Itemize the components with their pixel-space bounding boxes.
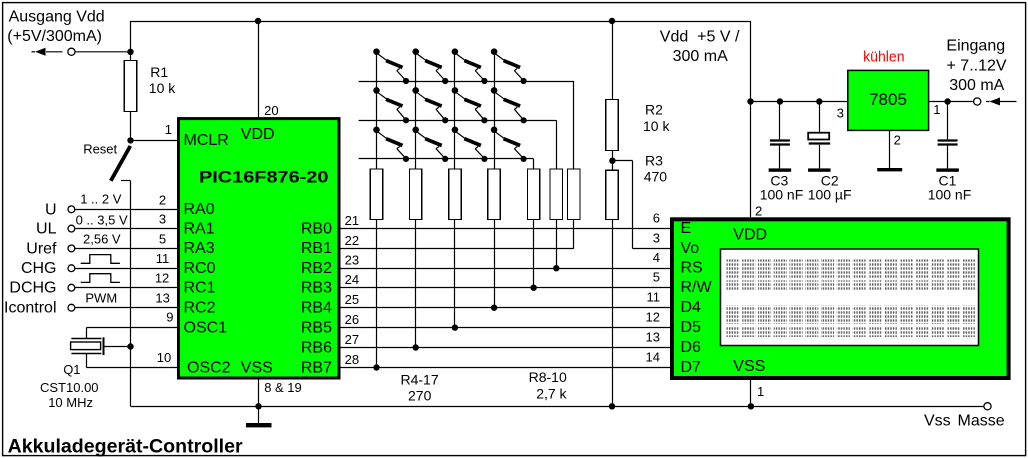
svg-text:24: 24 [345, 272, 359, 287]
svg-text:20: 20 [264, 103, 278, 118]
svg-text:3: 3 [837, 105, 844, 120]
svg-text:CHG: CHG [21, 260, 57, 277]
svg-text:OSC1: OSC1 [184, 319, 228, 336]
svg-text:12: 12 [646, 310, 660, 325]
svg-text:Reset: Reset [83, 141, 117, 156]
svg-text:3: 3 [159, 212, 166, 227]
svg-text:Icontrol: Icontrol [4, 300, 56, 317]
svg-text:RC2: RC2 [184, 300, 216, 317]
svg-text:100 nF: 100 nF [928, 187, 972, 203]
svg-text:4: 4 [653, 250, 660, 265]
svg-text:RS: RS [681, 260, 703, 277]
svg-text:RA0: RA0 [184, 201, 215, 218]
svg-text:Akkuladegerät-Controller: Akkuladegerät-Controller [8, 436, 244, 457]
svg-text:(+5V/300mA): (+5V/300mA) [7, 28, 102, 45]
svg-text:5: 5 [159, 231, 166, 246]
svg-text:D5: D5 [681, 319, 702, 336]
svg-text:14: 14 [646, 350, 660, 365]
svg-text:kühlen: kühlen [863, 49, 905, 66]
svg-text:22: 22 [345, 233, 359, 248]
svg-text:+ 7..12V: + 7..12V [947, 57, 1007, 74]
svg-text:10 k: 10 k [643, 118, 670, 134]
svg-text:PWM: PWM [85, 290, 117, 305]
svg-text:RB1: RB1 [301, 240, 332, 257]
svg-text:100 µF: 100 µF [808, 187, 852, 203]
svg-text:VSS: VSS [733, 358, 765, 375]
svg-text:5: 5 [653, 270, 660, 285]
svg-text:8 & 19: 8 & 19 [264, 380, 302, 395]
svg-text:RC0: RC0 [184, 260, 216, 277]
svg-text:26: 26 [345, 312, 359, 327]
svg-text:E: E [681, 220, 692, 237]
svg-text:2: 2 [755, 203, 762, 218]
svg-text:VDD: VDD [733, 226, 767, 243]
svg-text:Uref: Uref [26, 240, 57, 257]
svg-text:6: 6 [653, 211, 660, 226]
svg-text:13: 13 [646, 330, 660, 345]
svg-text:11: 11 [647, 290, 661, 305]
svg-text:28: 28 [345, 352, 359, 367]
svg-text:Vdd +5 V /: Vdd +5 V / [660, 29, 740, 46]
svg-text:1: 1 [933, 102, 940, 117]
svg-text:R3: R3 [645, 152, 663, 168]
svg-text:RB6: RB6 [301, 339, 332, 356]
svg-text:Vss: Vss [924, 412, 951, 429]
svg-text:7805: 7805 [869, 90, 907, 109]
svg-text:CST10.00: CST10.00 [40, 380, 99, 395]
svg-text:270: 270 [408, 388, 432, 404]
svg-text:UL: UL [36, 221, 57, 238]
svg-text:11: 11 [156, 251, 170, 266]
svg-text:RB0: RB0 [301, 220, 332, 237]
svg-text:R1: R1 [150, 64, 168, 80]
svg-text:OSC2: OSC2 [187, 359, 231, 376]
svg-text:10 k: 10 k [149, 80, 176, 96]
svg-text:0 .. 3,5 V: 0 .. 3,5 V [76, 212, 128, 227]
svg-text:300 mA: 300 mA [673, 48, 728, 65]
svg-text:D4: D4 [681, 299, 702, 316]
svg-text:12: 12 [155, 271, 169, 286]
svg-text:RA1: RA1 [184, 220, 215, 237]
svg-text:VSS: VSS [241, 359, 273, 376]
svg-text:100 nF: 100 nF [760, 187, 804, 203]
svg-text:RC1: RC1 [184, 280, 216, 297]
svg-text:27: 27 [345, 332, 359, 347]
svg-text:2,7 k: 2,7 k [536, 386, 567, 402]
svg-text:D6: D6 [681, 339, 702, 356]
svg-text:Vo: Vo [681, 240, 700, 257]
svg-text:D7: D7 [681, 359, 702, 376]
svg-text:10: 10 [157, 350, 171, 365]
svg-text:1: 1 [165, 122, 172, 137]
svg-text:RB4: RB4 [301, 300, 332, 317]
svg-text:470: 470 [644, 169, 668, 185]
svg-text:1 .. 2 V: 1 .. 2 V [80, 191, 122, 206]
svg-text:RB3: RB3 [301, 280, 332, 297]
svg-text:Masse: Masse [958, 412, 1005, 429]
svg-text:25: 25 [345, 292, 359, 307]
svg-text:21: 21 [345, 213, 359, 228]
svg-text:2: 2 [159, 192, 166, 207]
svg-text:R/W: R/W [681, 279, 713, 296]
svg-text:3: 3 [653, 231, 660, 246]
svg-text:Ausgang Vdd: Ausgang Vdd [9, 8, 105, 25]
svg-text:13: 13 [155, 291, 169, 306]
svg-text:23: 23 [345, 253, 359, 268]
svg-text:MCLR: MCLR [184, 132, 229, 149]
svg-text:RA3: RA3 [184, 240, 215, 257]
svg-text:Eingang: Eingang [946, 38, 1005, 55]
svg-text:2,56 V: 2,56 V [83, 232, 121, 247]
svg-text:R8-10: R8-10 [529, 369, 567, 385]
svg-text:RB5: RB5 [301, 319, 332, 336]
svg-text:U: U [45, 201, 57, 218]
svg-text:R4-17: R4-17 [401, 372, 439, 388]
svg-text:RB7: RB7 [301, 359, 332, 376]
svg-text:9: 9 [166, 309, 173, 324]
svg-text:2: 2 [894, 133, 901, 148]
svg-text:10 MHz: 10 MHz [48, 395, 93, 410]
svg-text:VDD: VDD [241, 126, 275, 143]
svg-text:RB2: RB2 [301, 260, 332, 277]
svg-text:300 mA: 300 mA [949, 77, 1004, 94]
svg-text:DCHG: DCHG [9, 280, 56, 297]
svg-text:R2: R2 [645, 102, 663, 118]
svg-text:1: 1 [757, 384, 764, 399]
svg-text:PIC16F876-20: PIC16F876-20 [199, 168, 328, 187]
svg-text:Q1: Q1 [63, 362, 80, 377]
